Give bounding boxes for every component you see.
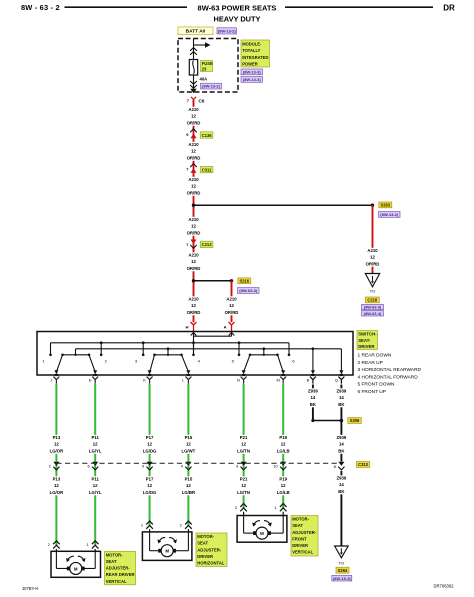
connector pin Q below switch	[340, 374, 343, 376]
svg-text:ADJUSTER-: ADJUSTER-	[197, 547, 222, 552]
svg-text:OR/RD: OR/RD	[187, 230, 201, 235]
reference link 8W-13-2 beside BATT A0	[217, 28, 237, 34]
svg-text:LG/BR: LG/BR	[182, 490, 196, 495]
in-line connector symbol for P19	[280, 462, 286, 466]
wire label A210 12 OR/RD (to A)	[224, 296, 240, 315]
svg-text:Q: Q	[335, 377, 338, 382]
connector pin A at switch	[229, 322, 235, 332]
connector reference C313	[356, 462, 370, 468]
svg-text:OR/RD: OR/RD	[187, 310, 201, 315]
svg-text:5 FRONT DOWN: 5 FRONT DOWN	[358, 382, 395, 388]
reference link 8W-63-3 below S216	[238, 288, 260, 294]
svg-text:OR/RD: OR/RD	[225, 310, 239, 315]
svg-text:J: J	[50, 377, 52, 382]
svg-text:SEAT: SEAT	[106, 559, 117, 564]
motor connector chevrons pin 1	[146, 521, 153, 524]
svg-text:12: 12	[191, 259, 196, 264]
upper bus (feed)	[51, 342, 290, 344]
motor connector chevrons pin 1	[280, 504, 287, 507]
svg-text:A: A	[224, 324, 227, 329]
reference link 8W-13-3	[241, 69, 263, 75]
motor M2 outline	[142, 532, 192, 561]
svg-text:12: 12	[186, 442, 191, 447]
motor M2 label	[196, 533, 227, 567]
svg-text:OR/RD: OR/RD	[187, 190, 201, 195]
svg-text:40A: 40A	[200, 77, 208, 82]
motor connector chevrons pin 2	[185, 521, 192, 524]
svg-text:12: 12	[191, 114, 196, 119]
svg-text:P13: P13	[53, 435, 61, 440]
svg-text:ADJUSTER-: ADJUSTER-	[292, 530, 317, 535]
svg-text:3 HORIZONTAL REARWARD: 3 HORIZONTAL REARWARD	[358, 367, 422, 373]
switch rocker 1	[63, 354, 90, 356]
svg-text:(8W-63-3): (8W-63-3)	[239, 288, 258, 293]
splice branch line to S263	[194, 204, 373, 206]
svg-text:VERTICAL: VERTICAL	[106, 579, 127, 584]
motor M2 armature	[158, 549, 161, 553]
svg-text:12: 12	[147, 442, 152, 447]
svg-text:(8W-63-3): (8W-63-3)	[364, 305, 382, 310]
branch arrow to other circuits	[194, 44, 207, 46]
svg-text:BATT A0: BATT A0	[186, 29, 206, 35]
reference link 8W-63-3	[362, 304, 384, 309]
svg-text:12: 12	[191, 149, 196, 154]
svg-text:A210: A210	[188, 107, 199, 112]
motor M1 outline	[51, 551, 101, 577]
svg-text:A210: A210	[188, 177, 199, 182]
svg-text:P15: P15	[185, 477, 193, 482]
reference link 8W-13-4	[241, 77, 263, 83]
svg-text:12: 12	[147, 483, 152, 488]
svg-text:FRONT: FRONT	[292, 536, 307, 541]
svg-text:12: 12	[241, 483, 246, 488]
wire P21 LG/TN	[243, 384, 245, 508]
svg-text:LG/WT: LG/WT	[181, 448, 195, 453]
header rule left	[65, 6, 188, 8]
svg-text:C216: C216	[367, 298, 378, 303]
wire P17 LG/DG	[149, 384, 151, 526]
wire P11 LG/YL	[94, 384, 96, 546]
svg-text:N: N	[237, 377, 240, 382]
svg-text:OR/RD: OR/RD	[187, 120, 201, 125]
svg-text:S216: S216	[240, 278, 250, 283]
motor M1 armature	[67, 567, 70, 571]
stationary contact at x=239.0	[238, 343, 240, 355]
connector pin N below switch	[242, 374, 245, 376]
svg-text:MOTOR-: MOTOR-	[292, 517, 310, 522]
svg-text:12: 12	[191, 303, 196, 308]
wire label A210 12 OR/RD (5)	[186, 252, 202, 271]
svg-text:LG/TN: LG/TN	[237, 448, 250, 453]
svg-text:HEAVY DUTY: HEAVY DUTY	[214, 15, 261, 24]
reference link 8W-13-2 below S263	[379, 212, 401, 218]
svg-text:12: 12	[191, 224, 196, 229]
connector pin E below switch	[94, 374, 97, 376]
stationary contact at x=289.0	[288, 343, 290, 355]
svg-text:MOTOR-: MOTOR-	[106, 552, 124, 557]
wire fuse to output	[193, 75, 195, 89]
fuse label FUSE 23	[201, 61, 213, 72]
connector pin J below switch	[55, 374, 58, 376]
svg-text:(8W-15-3): (8W-15-3)	[333, 576, 352, 581]
svg-text:TO: TO	[370, 289, 375, 294]
svg-text:E: E	[89, 377, 92, 382]
connector chevrons TIPM output	[190, 81, 197, 84]
wire label P15 12 LG/BR (below connector)	[180, 476, 196, 495]
header rule right	[285, 6, 433, 8]
svg-text:(8W-13-3): (8W-13-3)	[243, 70, 262, 75]
svg-text:LG/LB: LG/LB	[277, 490, 290, 495]
feed entry pin H inside box	[193, 332, 195, 355]
splice reference S264	[336, 567, 349, 573]
svg-text:DRIVER: DRIVER	[358, 344, 375, 349]
connector C213 pin 7	[191, 240, 197, 245]
fuse element	[189, 60, 197, 76]
svg-text:2 REAR UP: 2 REAR UP	[358, 360, 383, 366]
svg-text:12: 12	[370, 255, 375, 260]
svg-text:6 FRONT UP: 6 FRONT UP	[358, 389, 386, 395]
lower bus (ground)	[76, 348, 342, 350]
wire label P13 12 LG/OR (above connector)	[48, 435, 64, 454]
motor M2 internal wiring	[149, 532, 151, 551]
svg-text:C213: C213	[202, 242, 213, 247]
splice S306	[340, 419, 344, 423]
svg-text:K: K	[143, 377, 146, 382]
svg-text:J07BY-H: J07BY-H	[22, 586, 38, 591]
svg-text:C6: C6	[199, 99, 205, 104]
svg-text:(8W-13-2): (8W-13-2)	[380, 212, 399, 217]
svg-text:REAR DRIVER: REAR DRIVER	[106, 572, 135, 577]
wire label A210 12 OR/RD (3)	[186, 177, 202, 196]
svg-text:A210: A210	[188, 142, 199, 147]
svg-text:4 HORIZONTAL FORWARD: 4 HORIZONTAL FORWARD	[358, 374, 419, 380]
connector pin B below switch	[311, 374, 314, 376]
svg-text:B: B	[307, 377, 310, 382]
wire Z939 14 BK from pin B	[312, 385, 314, 421]
svg-text:12: 12	[191, 184, 196, 189]
svg-text:LG/OR: LG/OR	[50, 490, 65, 495]
stationary contact at x=143.2	[142, 343, 144, 355]
wire A210 branch to pin A	[231, 281, 233, 322]
svg-text:Z939: Z939	[308, 389, 318, 394]
svg-text:Z939: Z939	[337, 389, 347, 394]
connector C6 pin 7	[191, 97, 196, 103]
in-line connector symbol for P21	[241, 462, 247, 466]
svg-text:A210: A210	[188, 297, 199, 302]
motor connector chevrons pin 1	[92, 541, 99, 544]
reference link 8W-13-2 below 40A	[201, 83, 222, 89]
wire feed inside TIPM	[193, 39, 195, 61]
svg-text:(8W-13-2): (8W-13-2)	[202, 84, 221, 89]
svg-text:A210: A210	[188, 217, 199, 222]
connector pin L below switch	[187, 374, 190, 376]
svg-text:BK: BK	[338, 402, 345, 407]
module TIPM dashed outline	[178, 39, 238, 93]
svg-text:FUSE: FUSE	[202, 61, 213, 66]
switch-seat-driver box outline	[37, 332, 353, 376]
svg-text:BK: BK	[338, 489, 345, 494]
svg-text:BK: BK	[310, 402, 317, 407]
motor M3 internal wiring	[243, 516, 245, 534]
stationary contact at x=193.5	[193, 343, 195, 355]
ground drops to pins B and Q	[312, 347, 315, 350]
svg-text:DRIVER: DRIVER	[292, 543, 308, 548]
wire label P17 12 LG/DG (below connector)	[142, 476, 158, 495]
svg-text:Z939: Z939	[337, 476, 347, 481]
splice S216 and branch line	[194, 280, 232, 282]
wire P19 LG/LB	[282, 384, 284, 508]
svg-text:23: 23	[202, 66, 207, 71]
battery feed label BATT A0	[178, 27, 213, 35]
wire A210 12 OR/RD main run	[193, 100, 195, 322]
svg-text:(8W-63-4): (8W-63-4)	[364, 311, 382, 316]
svg-text:POWER: POWER	[242, 62, 258, 67]
svg-text:MOTOR-: MOTOR-	[197, 534, 215, 539]
connector C136 pin 9	[190, 129, 197, 133]
svg-text:SEAT: SEAT	[197, 541, 208, 546]
stationary contact at x=101.2	[100, 343, 102, 355]
svg-text:HORIZONTAL: HORIZONTAL	[197, 561, 225, 566]
svg-text:1 REAR DOWN: 1 REAR DOWN	[358, 353, 392, 359]
switch rocker 3	[250, 354, 278, 356]
svg-text:LG/LB: LG/LB	[277, 448, 290, 453]
svg-text:OR/RD: OR/RD	[366, 261, 380, 266]
svg-text:ADJUSTER-: ADJUSTER-	[106, 566, 131, 571]
wire label A210 12 OR/RD (to H)	[186, 296, 202, 315]
svg-text:P17: P17	[146, 435, 154, 440]
svg-text:C313: C313	[358, 462, 369, 467]
svg-text:12: 12	[54, 483, 59, 488]
wire label P11 12 LG/YL (above connector)	[87, 435, 103, 454]
feed entry pin A inside box	[231, 332, 233, 337]
in-line connector symbol for Z939 at C313	[338, 462, 344, 466]
svg-text:P13: P13	[53, 477, 61, 482]
reference link 8W-15-3	[332, 575, 352, 581]
motor M1 rotation arrows	[68, 556, 74, 560]
svg-text:P19: P19	[279, 435, 287, 440]
in-line connector symbol for P15	[185, 462, 191, 466]
motor M2 rotation arrows	[159, 537, 165, 541]
svg-text:LG/DG: LG/DG	[143, 448, 157, 453]
svg-text:M: M	[165, 549, 169, 554]
motor M3 rotation arrows	[254, 521, 260, 525]
svg-text:C136: C136	[202, 133, 213, 138]
svg-text:DR706392: DR706392	[434, 584, 455, 589]
svg-text:S264: S264	[338, 568, 348, 573]
svg-text:12: 12	[281, 442, 286, 447]
svg-text:INTEGRATED: INTEGRATED	[242, 55, 268, 60]
wire label P17 12 LG/DG (above connector)	[142, 435, 158, 454]
connector pin H at switch	[191, 322, 197, 332]
wire label P15 12 LG/WT (above connector)	[180, 435, 196, 454]
wire label A210 12 OR/RD (4)	[186, 217, 202, 236]
svg-text:SWITCH-: SWITCH-	[358, 331, 377, 336]
splice S263	[371, 204, 374, 207]
svg-text:H: H	[186, 324, 189, 329]
svg-text:12: 12	[229, 303, 234, 308]
motor M1 label	[105, 551, 136, 585]
svg-text:P11: P11	[91, 435, 99, 440]
svg-text:OR/RD: OR/RD	[187, 266, 201, 271]
svg-text:LG/TN: LG/TN	[237, 490, 250, 495]
switch rocker 2	[155, 354, 182, 356]
svg-text:12: 12	[241, 442, 246, 447]
svg-text:14: 14	[339, 482, 344, 487]
connector chevrons inside TIPM top	[190, 48, 197, 51]
in-line connector symbol for P13	[53, 462, 59, 466]
connector reference C216	[365, 297, 379, 303]
reference link 8W-63-4	[362, 311, 384, 316]
svg-text:VERTICAL: VERTICAL	[292, 550, 313, 555]
svg-text:LG/DG: LG/DG	[143, 490, 157, 495]
svg-text:LG/OR: LG/OR	[50, 448, 65, 453]
motor M3 label	[291, 516, 318, 557]
wire label A210 12 OR/RD (1)	[186, 107, 202, 126]
svg-text:TO: TO	[339, 561, 344, 566]
wire label P11 12 LG/YL (below connector)	[87, 476, 103, 495]
svg-text:(8W-13-4): (8W-13-4)	[243, 77, 262, 82]
wire label P21 12 LG/TN (below connector)	[236, 476, 252, 495]
motor connector chevrons pin 2	[240, 504, 247, 507]
motor M3 outline	[237, 516, 287, 543]
svg-text:A210: A210	[188, 253, 199, 258]
wire label P19 12 LG/LB (below connector)	[275, 476, 291, 495]
svg-text:M: M	[277, 377, 280, 382]
dashed in-line connector line	[56, 462, 341, 464]
svg-text:P17: P17	[146, 477, 154, 482]
svg-text:M: M	[260, 531, 264, 536]
svg-text:S306: S306	[350, 418, 360, 423]
wire label Z939 14 BK (below S306)	[333, 435, 349, 454]
svg-text:P11: P11	[91, 477, 99, 482]
svg-text:BK: BK	[338, 448, 345, 453]
svg-text:8W-63 POWER SEATS: 8W-63 POWER SEATS	[198, 4, 277, 13]
svg-text:P15: P15	[185, 435, 193, 440]
svg-text:SEAT-: SEAT-	[358, 338, 371, 343]
wire label P13 12 LG/OR (below connector)	[48, 476, 64, 495]
svg-text:S263: S263	[381, 203, 391, 208]
wire P13 LG/OR	[55, 384, 57, 546]
svg-text:C311: C311	[202, 167, 212, 172]
svg-text:12: 12	[281, 483, 286, 488]
svg-text:12: 12	[93, 442, 98, 447]
connector C311 pin 7	[190, 164, 197, 168]
svg-text:14: 14	[339, 442, 344, 447]
wire label A210 12 OR/RD (S263 branch)	[365, 248, 381, 267]
svg-text:M: M	[74, 566, 78, 571]
svg-text:Z939: Z939	[337, 435, 347, 440]
svg-text:TOTALLY: TOTALLY	[242, 48, 260, 53]
stationary contact at x=50.5	[50, 343, 52, 355]
svg-text:P21: P21	[240, 435, 248, 440]
TIPM exit arrow	[190, 89, 196, 93]
wire P15 LG/WT	[187, 384, 189, 526]
svg-text:MODULE-: MODULE-	[242, 41, 262, 46]
motor M1 internal wiring	[55, 551, 57, 568]
motor connector chevrons pin 2	[53, 541, 60, 544]
svg-text:LG/YL: LG/YL	[89, 490, 102, 495]
svg-text:A210: A210	[226, 297, 237, 302]
wire label P19 12 LG/LB (above connector)	[275, 435, 291, 454]
off-page triangle to S264 ground	[335, 546, 349, 558]
wire label A210 12 OR/RD (2)	[186, 142, 202, 161]
off-page triangle to C216	[365, 274, 379, 287]
svg-text:P21: P21	[240, 477, 248, 482]
svg-text:LG/YL: LG/YL	[89, 448, 102, 453]
svg-text:14: 14	[311, 395, 316, 400]
svg-text:DRIVER: DRIVER	[197, 554, 213, 559]
svg-text:8W - 63 - 2: 8W - 63 - 2	[21, 3, 60, 12]
svg-text:14: 14	[339, 395, 344, 400]
in-line connector symbol for P11	[92, 462, 98, 466]
svg-text:12: 12	[93, 483, 98, 488]
svg-text:12: 12	[186, 483, 191, 488]
splice link to S306	[313, 420, 342, 422]
svg-text:A210: A210	[367, 248, 378, 253]
svg-text:OR/RD: OR/RD	[187, 155, 201, 160]
svg-text:P19: P19	[279, 477, 287, 482]
switch label SWITCH-SEAT-DRIVER	[357, 331, 378, 350]
svg-text:DR: DR	[443, 4, 455, 13]
svg-text:10: 10	[273, 463, 278, 468]
module label MODULE-TOTALLY INTEGRATED POWER	[241, 40, 270, 67]
wire Z939 14 BK to ground	[340, 471, 342, 546]
wire A210 12 OR/RD branch at S263	[372, 205, 374, 273]
connector pin K below switch	[148, 374, 151, 376]
svg-text:12: 12	[54, 442, 59, 447]
svg-text:SEAT: SEAT	[292, 523, 303, 528]
svg-text:(8W-13-2): (8W-13-2)	[218, 29, 237, 34]
connector pin M below switch	[282, 374, 285, 376]
motor M3 armature	[253, 531, 256, 535]
wire Z939 14 BK from pin Q	[340, 385, 342, 462]
wire label P21 12 LG/TN (above connector)	[236, 435, 252, 454]
in-line connector symbol for P17	[147, 462, 153, 466]
